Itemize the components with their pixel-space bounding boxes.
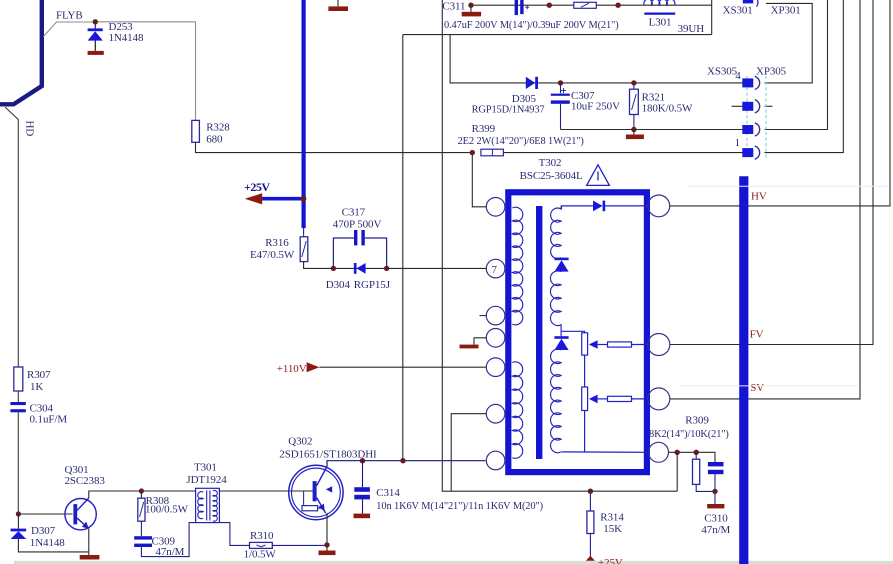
thick +25V bus vertical [302,0,306,228]
resistor R399 [481,149,504,156]
T302 secondary winding section B [550,271,561,336]
connector XS305 pin 2 [742,123,759,136]
wire XP301 down to pin4 row [765,3,813,83]
wire long vertical to bottom row [442,0,677,491]
svg-text:470P 500V: 470P 500V [333,218,382,230]
node R308 dot [139,488,144,493]
svg-text:XP305: XP305 [756,65,787,77]
svg-text:RGP15D/1N4937: RGP15D/1N4937 [472,104,545,115]
svg-text:2E2 2W(14"20")/6E8 1W(21"): 2E2 2W(14"20")/6E8 1W(21") [458,136,584,147]
connector XS305 pin 4 [742,76,759,89]
svg-text:180K/0.5W: 180K/0.5W [642,103,693,115]
ground pin4 [460,345,479,349]
wire Q301 collector up [89,491,196,498]
stub pin3 [480,315,487,317]
ground Q302 emitter [319,551,336,556]
capacitor C307 [551,83,570,130]
svg-text:R399: R399 [472,123,496,135]
node C314 dot [360,458,365,463]
capacitor C304 [10,402,25,412]
wire Q301 emitter down [88,529,90,556]
wire HV out [670,0,890,206]
svg-text:1N4148: 1N4148 [109,32,144,44]
pin circle left 3 [486,306,505,325]
svg-text:+25V: +25V [598,557,623,564]
wire R399 to pin1 row [503,152,743,154]
node dot C307 top [558,80,563,85]
wire Q302 collector node [327,461,486,467]
transformer T302 body [508,192,647,472]
svg-text:+25V: +25V [244,180,270,194]
T302 secondary winding section C [551,349,562,453]
power arrow +25V [245,193,262,204]
T302 primary winding lower [512,362,522,458]
rectifier diode internal 1 [554,258,568,272]
ground of D253 [88,51,104,55]
node dot pin out [675,450,680,455]
resistor R310 [250,542,328,548]
pin circle left 4 [486,329,505,348]
node dot top row 1 [547,2,552,7]
resistor R308 [138,491,145,536]
svg-text:+110V: +110V [277,363,307,375]
diode D304 [354,263,366,274]
wire vertical top feed to collector node [402,35,404,461]
pin circle HV [648,195,670,217]
svg-text:HV: HV [751,190,767,202]
wire FLYB to R328 [95,22,195,121]
capacitor C312 top (cut) [515,0,530,15]
wire FV out [670,0,873,345]
node dot R314 top [588,489,593,494]
wire tap to focus divider [562,331,585,333]
svg-text:D253: D253 [109,21,134,33]
wire +25V branch [262,197,304,201]
ground Q301 emitter [80,555,100,560]
resistor R328 [192,120,200,142]
wire C307 R321 bottom row to pin3 [561,129,744,131]
wire bottom pin to R309 C310 [669,452,716,462]
svg-text:FLYB: FLYB [56,10,83,22]
faint guide line HV row [688,185,888,187]
svg-text:1: 1 [735,137,740,149]
wire secondary bottom [562,451,649,453]
T302 core bar [536,206,542,459]
svg-text:R309: R309 [685,414,709,426]
svg-text:7: 7 [492,264,498,276]
wire feedback vertical [676,452,678,491]
wire FLYB branch diagonal [44,22,96,36]
node dot top row 2 [615,2,620,7]
svg-text:R310: R310 [250,530,274,542]
node D304 left dot [331,266,336,271]
svg-text:C310: C310 [704,512,728,524]
svg-text:15K: 15K [603,523,622,535]
node dot C310 bottom [712,489,717,494]
capacitor C317 [333,230,386,268]
svg-text:Q302: Q302 [288,436,312,448]
svg-text:100/0.5W: 100/0.5W [145,504,189,516]
resistor R314 [587,491,594,556]
power arrow +25V bottom [586,556,595,561]
wire Q302 emitter to ground [326,513,328,551]
node dot R321 top [631,80,636,85]
connector XS305 dashed guides [746,76,748,158]
svg-text:39UH: 39UH [678,23,705,35]
svg-text:R314: R314 [600,511,624,523]
svg-text:10n 1K6V M(14"21")/11n 1K6V M(: 10n 1K6V M(14"21")/11n 1K6V M(20") [376,501,543,512]
inductor L301 [644,0,675,14]
svg-text:47n/M: 47n/M [156,546,185,558]
svg-text:680: 680 [206,133,223,145]
power arrow +110V [307,362,320,372]
thick HV bus bar [739,176,748,564]
T302 primary winding upper [512,207,522,325]
pin circle FV [648,334,670,356]
node +25V dot [300,196,306,202]
wire pin3 row right [765,0,828,130]
connector XS305 pin 3 [742,100,759,113]
transistor Q302 [289,465,343,519]
wire pin4 row left [450,35,743,83]
svg-text:T301: T301 [194,461,217,473]
pin circle left 6 [486,404,505,423]
svg-text:XP301: XP301 [771,5,801,17]
node collector dot [400,458,405,463]
svg-text:D307: D307 [31,525,56,537]
wire pin1 row right [765,0,844,153]
svg-text:1/0.5W: 1/0.5W [244,549,277,561]
resistor R321 [630,83,639,130]
resistor R309 [693,452,716,491]
capacitor C309 [134,523,195,557]
ground C310 [707,504,724,508]
svg-text:XS305: XS305 [707,65,738,77]
HV rectifier diode [593,201,648,212]
pin circle bottom right [649,442,669,462]
resistor R316 [300,228,486,268]
svg-text:1K: 1K [30,381,43,393]
svg-text:1N4148: 1N4148 [30,537,65,549]
pin circle left 1 [486,198,505,217]
wire T301 bottom to R310 [219,523,249,546]
wire top horizontal feed [403,34,712,36]
resistor R307 [14,367,23,391]
node D304 right dot [384,266,389,271]
svg-text:E47/0.5W: E47/0.5W [250,249,295,261]
transformer T301 [196,488,220,522]
wire +110V to pin [319,366,486,368]
resistor top row [574,2,597,8]
transistor Q301 [65,498,96,530]
diode D253 [88,22,103,51]
svg-text:R307: R307 [27,369,51,381]
wire R399 node down to top pin [472,154,486,207]
ground R321 [626,130,644,140]
wire SV out [670,0,860,399]
svg-text:JDT1924: JDT1924 [186,474,227,486]
wire top right corner vertical [711,0,713,35]
svg-text:T302: T302 [539,157,562,169]
stub pin4 to ground [474,338,486,345]
wire HD diagonal to R307 column [6,108,19,368]
svg-text:D305: D305 [512,93,537,105]
wire secondary top to HV diode [562,206,594,209]
diode D305 [526,77,538,89]
pin circle SV [648,388,670,410]
ground stub from top edge [328,0,348,11]
potentiometer FV [582,333,648,387]
wire pin6 to lower row [451,414,486,492]
svg-text:BSC25-3604L: BSC25-3604L [520,170,583,182]
svg-text:2SC2383: 2SC2383 [65,475,106,487]
node Q302 emitter dot [324,542,329,547]
svg-text:SV: SV [750,382,764,394]
wire node to Q301 base [18,513,72,515]
svg-text:FV: FV [750,328,764,340]
thick HD bus line top-left [0,0,42,104]
connector XP301 pin (cut at top) [743,0,758,7]
wire C304 to D307 node [17,412,19,514]
wire R307 to C304 [17,391,19,402]
rectifier diode internal 2 [554,336,568,350]
svg-text:D304: D304 [326,279,351,291]
svg-text:C314: C314 [376,487,400,499]
svg-text:C311: C311 [442,1,465,13]
svg-text:R328: R328 [206,121,230,133]
ground C314 [354,514,371,519]
svg-text:10uF 250V: 10uF 250V [571,101,620,113]
connector XS305 pin 1 [742,146,759,159]
wire T301 to Q302 base [219,490,312,492]
svg-text:4: 4 [735,70,741,82]
faint guide line SV row [680,385,858,387]
svg-text:C317: C317 [342,206,366,218]
stub pin2 left [732,105,743,107]
capacitor C310 [708,462,724,504]
capacitor C314 [354,461,370,514]
svg-text:0.1uF/M: 0.1uF/M [30,414,68,426]
wire R328 to main row [196,142,473,152]
bottom sheet border gray band [14,561,893,564]
node dot R309 top [694,450,699,455]
node dot ground row [631,127,636,132]
svg-text:Q301: Q301 [65,464,89,476]
T302 secondary winding section A [551,206,561,259]
svg-text:RGP15J: RGP15J [354,279,391,291]
svg-text:8K2(14")/10K(21"): 8K2(14")/10K(21") [649,429,729,440]
svg-text:XS301: XS301 [723,5,753,17]
node dot R399 [470,150,475,155]
svg-text:47n/M: 47n/M [701,524,730,536]
pin circle 7 [486,259,505,278]
diode D307 [11,514,89,552]
pin circle left 5 [486,358,505,377]
node base Q301 dot [16,511,21,516]
stub pin2 right [765,105,773,107]
pin circle left 7 [486,451,505,470]
svg-text:HD: HD [24,121,36,137]
ground C311 [462,5,481,16]
svg-text:L301: L301 [649,16,672,28]
svg-text:R316: R316 [265,237,289,249]
potentiometer SV [582,387,648,452]
warning triangle [587,165,610,186]
wire C311 row [471,4,712,6]
node FLYB junction dot [93,19,98,24]
node dot C311 [468,2,473,7]
svg-text:0.47uF 200V M(14")/0.39uF 200V: 0.47uF 200V M(14")/0.39uF 200V M(21") [444,20,619,31]
